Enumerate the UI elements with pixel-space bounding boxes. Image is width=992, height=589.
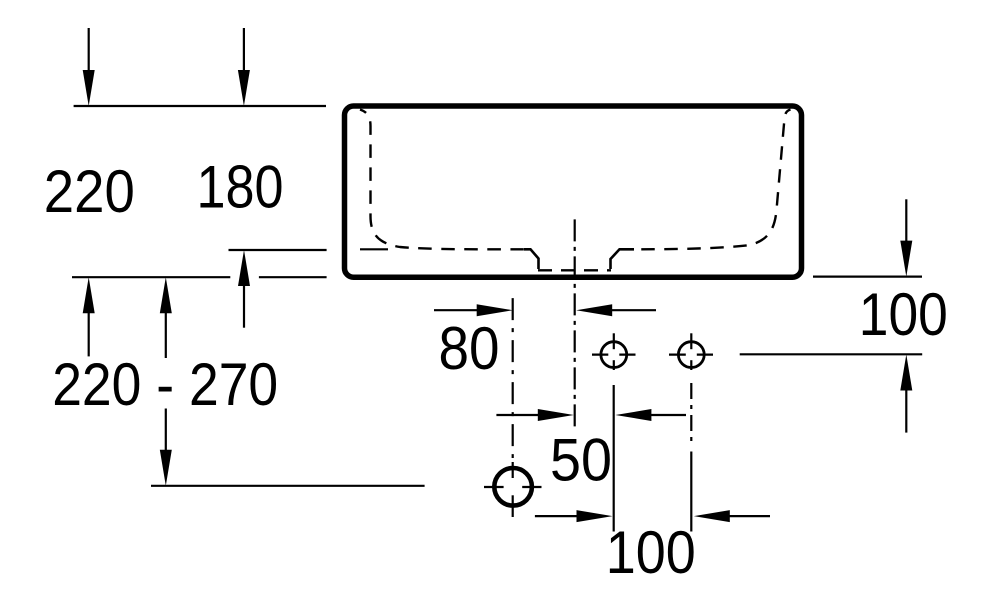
interior left solid segment of 180 dim line (360, 248, 388, 250)
down arrow 220 (83, 28, 95, 106)
svg-text:50: 50 (550, 427, 612, 494)
hole 2 circle (669, 333, 713, 370)
220 lower dimension line right part (259, 276, 327, 278)
big hole centerline dash-dot (512, 298, 514, 458)
hole 2 extension line dash-dot (690, 383, 692, 446)
hole 1 circle (592, 333, 636, 370)
top dimension reference line (74, 105, 326, 107)
hole 1 extension line solid (613, 385, 615, 532)
up arrow 100 right (900, 355, 912, 433)
bottom dimension line 270 level (151, 485, 425, 487)
drain solid detail right (611, 249, 635, 269)
50 dimension left-pointing arrow (615, 409, 686, 421)
svg-text:220 - 270: 220 - 270 (52, 351, 278, 418)
up arrow 220-270 top (160, 277, 172, 358)
basin inner dashed profile left wall (360, 110, 524, 250)
up arrow 220 (83, 277, 95, 356)
svg-text:100: 100 (859, 281, 948, 348)
down arrow 220-270 bottom (160, 409, 172, 486)
drain solid detail left (524, 249, 539, 269)
drain bottom dashed line (538, 269, 611, 271)
down arrow 180 (238, 28, 250, 106)
bottom 100 right-pointing arrow (535, 510, 613, 522)
80 dimension left-pointing arrow (576, 304, 656, 316)
right lower dimension line holes level (740, 353, 923, 355)
down arrow 100 right (900, 199, 912, 276)
up arrow 180 (238, 250, 250, 328)
50 dimension right-pointing arrow (496, 409, 573, 421)
basin outer outline (345, 106, 802, 277)
svg-text:80: 80 (439, 315, 500, 382)
220 lower dimension line left part (72, 276, 230, 278)
180 lower dimension line (229, 249, 327, 251)
80 dimension right-pointing arrow (434, 304, 513, 316)
right reference line basin bottom level (813, 276, 922, 278)
basin inner dashed profile right wall (634, 110, 791, 250)
svg-text:100: 100 (606, 519, 696, 586)
big hole circle (484, 468, 542, 506)
basin vertical centerline dash-dot (574, 219, 576, 430)
bottom 100 left-pointing arrow (694, 510, 770, 522)
svg-text:220: 220 (44, 158, 135, 225)
svg-text:180: 180 (197, 153, 284, 220)
